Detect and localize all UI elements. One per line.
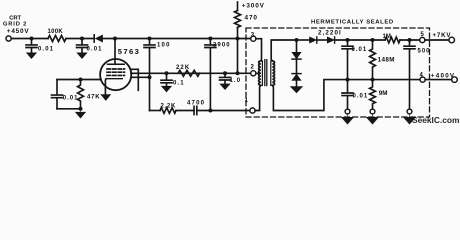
node dot F2: [371, 78, 375, 82]
diode CR1: [93, 35, 95, 42]
svg-text:470: 470: [245, 15, 258, 22]
node dot E2: [346, 78, 350, 82]
wire grid stub: [131, 69, 139, 90]
svg-text:100K: 100K: [48, 29, 64, 35]
node dot M2: [223, 71, 227, 75]
wire: [66, 38, 94, 40]
node dot A2: [80, 37, 84, 41]
resistor R3 2.2K: [160, 108, 176, 114]
node dot D1: [295, 38, 299, 42]
wire RC bottom: [57, 108, 81, 110]
wire: [317, 39, 328, 41]
svg-text:HERMETICALLY SEALED: HERMETICALLY SEALED: [311, 20, 394, 26]
svg-text:4700: 4700: [187, 100, 205, 106]
wire HV top: [297, 39, 310, 41]
ground G6: [291, 87, 303, 93]
wire secondary top: [271, 40, 296, 61]
wire +300V: [237, 2, 239, 11]
terminal +400V: [452, 77, 458, 83]
node dot K2: [79, 107, 83, 111]
capacitor C7 1.0: [220, 73, 231, 84]
node dot M3: [236, 71, 240, 75]
svg-text:+7KV: +7KV: [433, 32, 452, 39]
transformer core: [265, 60, 267, 86]
wire term3 to xfmr: [256, 39, 262, 61]
resistor R8 1M: [385, 37, 400, 43]
svg-text:+300V: +300V: [242, 3, 265, 10]
diode CR3 up: [292, 73, 301, 75]
capacitor C8 3900: [205, 39, 216, 111]
terminal 3: [251, 36, 256, 41]
node dot K1: [79, 78, 83, 82]
wire cathode left: [57, 79, 101, 81]
capacitor C4 100: [144, 39, 155, 78]
wire screen middle: [131, 72, 251, 74]
node dot F1: [371, 38, 375, 42]
capacitor C11 500: [404, 40, 415, 109]
resistor R 100K: [48, 36, 66, 42]
ground G5: [220, 84, 230, 90]
svg-text:0.01: 0.01: [38, 46, 54, 52]
node dot A1: [30, 37, 34, 41]
ground G3: [76, 109, 86, 118]
tube cathode: [106, 78, 122, 80]
wire rail left: [11, 38, 48, 40]
diode CR5: [327, 37, 334, 43]
wire: [197, 110, 250, 112]
ground G8: [367, 114, 379, 124]
node dot B2: [148, 75, 152, 79]
terminal H2: [407, 109, 412, 114]
lower wire out: [348, 79, 421, 81]
node dot M1: [165, 71, 169, 75]
terminal F3: [370, 109, 375, 114]
terminal CRT GRID 2 +450V: [6, 36, 11, 41]
node dot rail 470: [236, 37, 240, 41]
wire 470 down: [237, 27, 239, 73]
svg-text:0.01: 0.01: [353, 94, 369, 100]
svg-text:GRID 2: GRID 2: [3, 21, 27, 27]
node dot E1: [346, 38, 350, 42]
tube V1 5763 envelope: [100, 59, 131, 90]
wire secondary bottom loop: [272, 80, 347, 111]
svg-text:1M: 1M: [383, 34, 391, 40]
resistor R4 22K: [178, 70, 200, 76]
capacitor C9 0.01: [342, 40, 353, 80]
node dot plate: [113, 37, 117, 41]
diode CR4: [310, 37, 317, 43]
terminal 5: [420, 37, 425, 42]
terminal E3: [345, 109, 350, 114]
tube grids dashed: [107, 68, 125, 70]
capacitor C5 4700: [194, 106, 197, 114]
svg-text:0.1: 0.1: [173, 81, 185, 87]
node dot B3: [208, 109, 212, 113]
terminal +7KV: [449, 37, 455, 43]
ground G9: [404, 114, 416, 124]
terminal 2: [251, 71, 256, 76]
diode stack wire: [296, 40, 298, 53]
wire term2 tap: [256, 72, 259, 74]
svg-text:9M: 9M: [379, 90, 388, 97]
capacitor C3 0.01: [52, 80, 63, 109]
transformer T1 secondary winding: [272, 61, 274, 85]
svg-text:+450V: +450V: [7, 28, 30, 35]
wire +7KV: [425, 39, 449, 41]
svg-text:2.2K: 2.2K: [161, 103, 176, 109]
svg-text:1.0: 1.0: [230, 78, 242, 84]
svg-text:3900: 3900: [213, 42, 231, 48]
svg-text:148M: 148M: [378, 57, 395, 64]
node dot B1: [148, 37, 152, 41]
ground G7: [342, 114, 354, 124]
ground G2: [77, 53, 87, 59]
capacitor C2 0.01: [77, 39, 88, 53]
svg-text:500: 500: [418, 48, 431, 54]
wire: [400, 39, 420, 41]
node dot rail 3900: [208, 37, 212, 41]
svg-text:5763: 5763: [118, 47, 141, 56]
wire +400V: [425, 79, 452, 81]
wire xfmr primary bottom: [255, 85, 261, 110]
ground cathode: [101, 95, 111, 101]
wire: [102, 38, 250, 40]
wire suppressor tap: [131, 76, 150, 78]
capacitor C6 0.1: [161, 73, 172, 86]
capacitor C10 0.01: [342, 80, 353, 110]
svg-text:0.01: 0.01: [87, 46, 103, 52]
svg-text:2,220l: 2,220l: [318, 29, 342, 36]
svg-text:0.01: 0.01: [63, 95, 79, 101]
resistor R5 470: [235, 11, 241, 28]
tube plate: [114, 39, 116, 65]
ground G1: [27, 53, 37, 59]
node dot H1: [408, 38, 412, 42]
svg-text:100: 100: [157, 42, 171, 48]
svg-text:SeekIC.com: SeekIC.com: [412, 115, 459, 125]
wire: [296, 59, 298, 74]
capacitor C1 0.01: [26, 39, 37, 53]
terminal 1: [250, 108, 255, 113]
diode CR2 down: [292, 52, 301, 59]
wire: [335, 39, 385, 41]
resistor R6 148M: [370, 40, 376, 80]
resistor R7 9M: [370, 80, 376, 110]
hermetically sealed box dashed: [246, 28, 430, 117]
svg-text:0.01: 0.01: [352, 47, 368, 53]
wire down to bottom: [149, 77, 151, 110]
ground G4: [162, 86, 172, 92]
transformer T1 primary winding: [259, 61, 261, 85]
svg-text:+400V: +400V: [431, 72, 456, 79]
wire: [176, 110, 194, 112]
wire bottom left segment: [150, 110, 161, 112]
terminal 4: [420, 77, 425, 82]
wire: [296, 80, 298, 86]
svg-text:47K: 47K: [87, 95, 100, 101]
svg-text:22K: 22K: [176, 65, 190, 71]
resistor R2 47K: [78, 80, 84, 109]
svg-text:CRT: CRT: [9, 15, 21, 21]
